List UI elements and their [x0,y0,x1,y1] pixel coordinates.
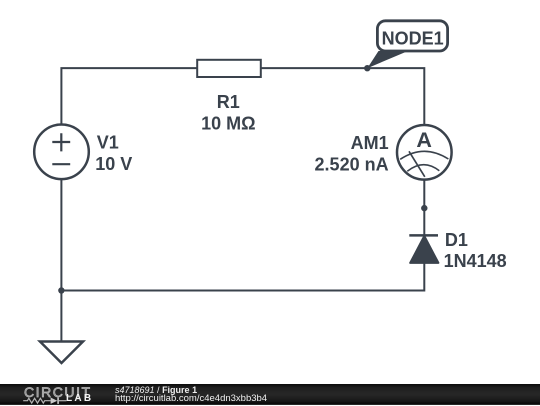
svg-text:1N4148: 1N4148 [444,251,507,271]
svg-text:V1: V1 [97,133,119,153]
logo resistor-diode glyph [22,394,70,406]
svg-text:NODE1: NODE1 [382,29,444,49]
wire V1 bottom to ground [60,180,62,341]
svg-text:D1: D1 [445,230,468,250]
footer line 1 [115,386,197,395]
wire V1 top to R1 left [61,68,197,124]
footer line 2 [115,394,267,404]
ground [40,342,83,364]
wire R1 right to AM1 top [261,68,424,125]
wire D1 anode to bottom rail [61,263,424,291]
svg-text:10 V: 10 V [95,154,132,174]
logo LAB [66,394,93,404]
svg-text:10 MΩ: 10 MΩ [201,113,255,133]
junction dot above D1 [421,205,427,211]
wire AM1 bottom to D1 cathode [423,180,425,235]
resistor R1 [197,60,261,77]
svg-text:2.520 nA: 2.520 nA [315,155,389,175]
diode D1 [409,235,438,263]
svg-text:R1: R1 [217,92,240,112]
footer bar [0,384,540,405]
logo CIRCUIT [24,385,92,399]
voltage source V1 [34,125,89,180]
callout tail NODE1 [367,51,408,68]
callout box NODE1 [377,21,447,51]
svg-text:A: A [416,128,432,152]
ammeter AM1 [397,125,452,180]
node dot NODE1 [364,65,370,71]
junction dot bottom-left [58,287,64,293]
svg-text:AM1: AM1 [351,133,389,153]
